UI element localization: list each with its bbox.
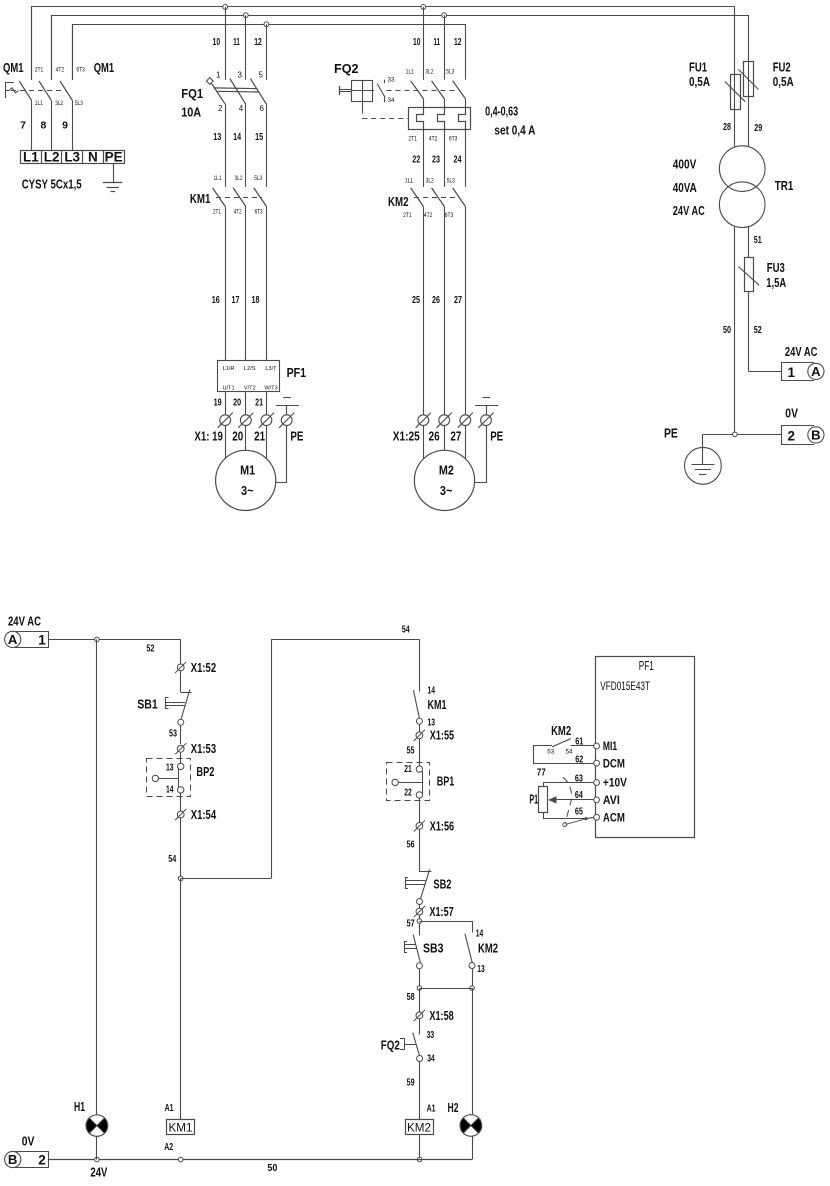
svg-text:22: 22 (412, 154, 420, 166)
svg-text:X1:58: X1:58 (429, 1009, 453, 1023)
svg-text:5L3: 5L3 (75, 100, 83, 107)
svg-text:H2: H2 (448, 1101, 459, 1115)
svg-text:DCM: DCM (603, 756, 625, 770)
svg-text:56: 56 (407, 838, 415, 850)
svg-text:B: B (8, 1152, 18, 1167)
svg-text:9: 9 (62, 120, 68, 132)
svg-text:7: 7 (20, 120, 26, 132)
svg-text:54: 54 (168, 853, 176, 865)
svg-text:3L2: 3L2 (425, 68, 433, 75)
svg-text:KM1: KM1 (428, 697, 447, 712)
svg-text:L1/R: L1/R (223, 366, 235, 372)
svg-text:53: 53 (547, 749, 554, 756)
svg-text:FQ2: FQ2 (334, 61, 359, 76)
svg-text:33: 33 (427, 1030, 435, 1041)
svg-text:TR1: TR1 (775, 178, 794, 193)
svg-text:VFD015E43T: VFD015E43T (600, 679, 650, 693)
svg-text:25: 25 (412, 294, 420, 306)
svg-text:11: 11 (434, 36, 441, 48)
svg-text:W/T3: W/T3 (264, 386, 277, 392)
svg-text:21: 21 (254, 429, 265, 443)
svg-text:5: 5 (259, 71, 264, 80)
svg-text:0,5A: 0,5A (773, 75, 794, 89)
svg-text:KM2: KM2 (551, 723, 571, 738)
svg-text:58: 58 (407, 991, 415, 1003)
svg-text:20: 20 (233, 397, 241, 409)
svg-text:3~: 3~ (440, 483, 453, 498)
svg-text:A1: A1 (165, 1103, 174, 1114)
svg-text:77: 77 (537, 767, 546, 779)
svg-text:KM1: KM1 (169, 1120, 193, 1134)
svg-text:L2: L2 (44, 149, 60, 164)
svg-text:34: 34 (388, 97, 395, 104)
svg-text:6T3: 6T3 (76, 66, 85, 73)
svg-text:3: 3 (238, 71, 243, 80)
svg-text:1: 1 (216, 71, 221, 80)
svg-text:8: 8 (40, 120, 46, 132)
svg-text:0V: 0V (785, 407, 798, 421)
svg-text:11: 11 (233, 36, 240, 48)
svg-text:X1:25: X1:25 (393, 429, 420, 443)
svg-text:CYSY 5Cx1,5: CYSY 5Cx1,5 (22, 177, 82, 191)
svg-text:14: 14 (233, 131, 241, 143)
svg-text:1: 1 (38, 633, 46, 648)
svg-text:ACM: ACM (603, 811, 625, 825)
svg-text:33: 33 (388, 77, 395, 84)
svg-text:24V: 24V (90, 1165, 107, 1179)
svg-text:FQ1: FQ1 (181, 86, 203, 101)
svg-text:A2: A2 (164, 1142, 173, 1153)
svg-text:1: 1 (788, 365, 796, 380)
svg-text:3L2: 3L2 (426, 177, 434, 184)
svg-text:21: 21 (255, 397, 263, 409)
svg-text:A: A (811, 364, 821, 379)
svg-text:4T2: 4T2 (56, 66, 65, 73)
svg-text:3L2: 3L2 (235, 175, 243, 182)
svg-text:55: 55 (407, 744, 415, 756)
svg-text:2: 2 (788, 428, 796, 443)
svg-text:FQ2: FQ2 (381, 1038, 400, 1053)
svg-text:24: 24 (454, 154, 462, 166)
svg-text:6T3: 6T3 (255, 209, 263, 216)
svg-text:13: 13 (477, 964, 485, 975)
svg-text:400V: 400V (673, 157, 697, 171)
svg-text:0V: 0V (22, 1135, 35, 1149)
svg-text:54: 54 (402, 624, 410, 636)
svg-text:L2/S: L2/S (244, 366, 256, 372)
svg-text:PE: PE (664, 427, 678, 441)
svg-text:QM1: QM1 (94, 61, 115, 75)
svg-text:53: 53 (169, 728, 177, 740)
svg-text:50: 50 (267, 1162, 277, 1174)
svg-text:50: 50 (723, 324, 731, 336)
svg-text:BP1: BP1 (437, 774, 455, 789)
svg-text:PF1: PF1 (639, 659, 654, 673)
svg-text:A1: A1 (427, 1104, 436, 1115)
svg-text:5L3: 5L3 (446, 68, 454, 75)
svg-text:M2: M2 (439, 463, 454, 478)
svg-text:15: 15 (255, 131, 263, 143)
svg-text:U/T1: U/T1 (222, 386, 234, 392)
svg-text:L3: L3 (64, 149, 80, 164)
svg-text:24V AC: 24V AC (8, 615, 41, 629)
svg-text:20: 20 (232, 429, 243, 443)
svg-text:2T1: 2T1 (403, 212, 412, 219)
svg-text:28: 28 (723, 121, 731, 133)
svg-text:1,5A: 1,5A (766, 276, 786, 290)
svg-text:54: 54 (566, 749, 573, 756)
svg-text:26: 26 (429, 429, 440, 443)
svg-text:X1:54: X1:54 (191, 808, 216, 822)
svg-text:2T1: 2T1 (408, 135, 417, 142)
svg-text:3L2: 3L2 (55, 100, 63, 107)
svg-text:65: 65 (575, 806, 583, 818)
svg-text:X1:57: X1:57 (429, 905, 453, 919)
svg-text:3~: 3~ (241, 483, 254, 498)
svg-text:4T2: 4T2 (429, 135, 438, 142)
svg-text:X1:55: X1:55 (430, 729, 454, 743)
svg-text:24V AC: 24V AC (673, 204, 705, 218)
svg-text:52: 52 (754, 324, 762, 336)
svg-text:PE: PE (290, 429, 303, 443)
svg-text:PF1: PF1 (287, 366, 307, 380)
svg-text:KM1: KM1 (190, 192, 211, 206)
svg-text:24V AC: 24V AC (785, 345, 818, 359)
svg-text:M1: M1 (240, 463, 255, 478)
svg-text:0,4-0,63: 0,4-0,63 (485, 105, 518, 119)
svg-text:0,5A: 0,5A (689, 75, 710, 89)
svg-text:16: 16 (212, 294, 220, 306)
svg-text:V/T2: V/T2 (244, 386, 256, 392)
svg-text:KM2: KM2 (388, 195, 409, 209)
svg-text:13: 13 (213, 131, 221, 143)
svg-text:N: N (88, 149, 98, 164)
svg-text:QM1: QM1 (3, 61, 24, 75)
svg-text:10: 10 (413, 36, 421, 48)
svg-text:X1:52: X1:52 (191, 661, 216, 675)
svg-text:52: 52 (146, 643, 154, 655)
svg-text:L1: L1 (23, 149, 39, 164)
svg-text:KM2: KM2 (478, 941, 498, 956)
svg-text:29: 29 (754, 122, 762, 134)
svg-text:1L1: 1L1 (214, 175, 222, 182)
svg-text:59: 59 (407, 1077, 415, 1089)
svg-text:1L1: 1L1 (406, 68, 414, 75)
svg-text:KM2: KM2 (407, 1120, 431, 1134)
svg-text:17: 17 (232, 294, 240, 306)
svg-text:10: 10 (213, 36, 221, 48)
svg-text:40VA: 40VA (673, 181, 697, 195)
svg-text:1L1: 1L1 (405, 177, 413, 184)
svg-text:2T1: 2T1 (213, 209, 221, 216)
svg-text:34: 34 (427, 1053, 435, 1064)
svg-text:26: 26 (432, 294, 440, 306)
svg-text:13: 13 (166, 762, 174, 773)
svg-text:1L1: 1L1 (35, 100, 43, 107)
svg-text:2: 2 (218, 104, 223, 113)
svg-text:13: 13 (428, 718, 436, 729)
svg-text:MI1: MI1 (603, 739, 617, 753)
svg-text:19: 19 (214, 397, 222, 409)
svg-text:27: 27 (450, 429, 461, 443)
svg-text:4: 4 (239, 104, 244, 113)
svg-text:10A: 10A (181, 104, 202, 119)
svg-text:51: 51 (754, 234, 762, 246)
svg-text:6T3: 6T3 (445, 212, 454, 219)
svg-text:5L3: 5L3 (447, 177, 455, 184)
svg-text:12: 12 (254, 36, 262, 48)
svg-text:FU3: FU3 (767, 261, 785, 275)
svg-text:57: 57 (407, 918, 415, 930)
svg-text:PE: PE (105, 149, 123, 164)
svg-text:2: 2 (38, 1153, 46, 1168)
svg-text:AVI: AVI (603, 793, 620, 807)
svg-text:6T3: 6T3 (449, 135, 458, 142)
svg-text:23: 23 (432, 154, 440, 166)
svg-text:18: 18 (252, 294, 260, 306)
svg-text:X1: 19: X1: 19 (194, 429, 223, 443)
svg-text:SB3: SB3 (423, 941, 443, 956)
svg-text:X1:56: X1:56 (430, 819, 454, 833)
svg-text:PE: PE (490, 429, 503, 443)
svg-text:5L3: 5L3 (254, 175, 262, 182)
svg-text:14: 14 (476, 928, 484, 939)
svg-text:FU1: FU1 (689, 61, 707, 75)
svg-text:27: 27 (454, 294, 462, 306)
svg-text:P1: P1 (529, 792, 538, 806)
svg-text:L3/T: L3/T (265, 366, 277, 372)
svg-text:12: 12 (454, 36, 462, 48)
svg-text:set 0,4 A: set 0,4 A (494, 124, 535, 138)
svg-text:+10V: +10V (603, 776, 627, 790)
svg-text:22: 22 (404, 788, 412, 799)
svg-text:4T2: 4T2 (234, 209, 242, 216)
svg-text:X1:53: X1:53 (191, 742, 216, 756)
svg-text:B: B (811, 428, 821, 443)
svg-text:FU2: FU2 (773, 61, 791, 75)
svg-text:6: 6 (260, 104, 265, 113)
svg-text:2T1: 2T1 (35, 66, 44, 73)
svg-text:SB1: SB1 (137, 696, 158, 711)
svg-text:A: A (8, 632, 18, 647)
svg-text:4T2: 4T2 (424, 212, 433, 219)
svg-text:14: 14 (166, 785, 174, 796)
svg-text:14: 14 (428, 686, 436, 697)
svg-text:BP2: BP2 (196, 764, 214, 779)
svg-text:H1: H1 (74, 1100, 85, 1114)
svg-text:21: 21 (404, 764, 412, 775)
svg-text:SB2: SB2 (433, 876, 451, 891)
